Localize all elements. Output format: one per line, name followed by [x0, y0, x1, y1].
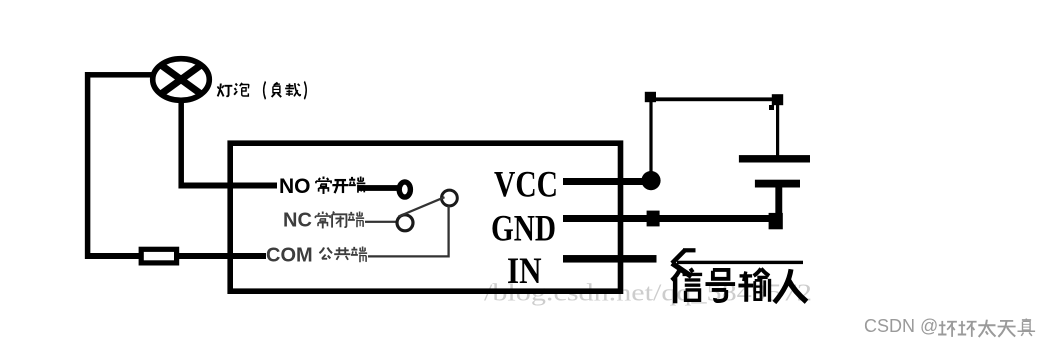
svg-text:VCC: VCC — [494, 165, 558, 206]
svg-text:GND: GND — [491, 209, 556, 250]
svg-text:IN: IN — [507, 251, 542, 292]
svg-text:NC: NC — [283, 210, 312, 232]
svg-text:COM: COM — [266, 245, 313, 267]
svg-text:NO: NO — [279, 175, 311, 198]
svg-text:CSDN @: CSDN @ — [864, 316, 938, 336]
